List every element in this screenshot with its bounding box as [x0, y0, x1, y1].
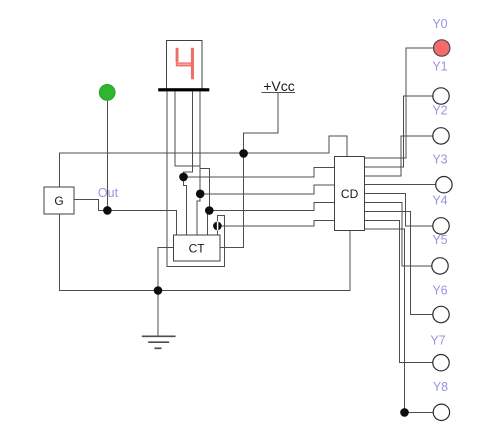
svg-text:CT: CT: [189, 242, 206, 256]
svg-text:+Vcc: +Vcc: [263, 78, 295, 94]
svg-text:Y5: Y5: [432, 233, 447, 247]
svg-text:Out: Out: [98, 186, 119, 200]
svg-text:Y8: Y8: [433, 380, 448, 394]
svg-text:Y2: Y2: [432, 104, 447, 118]
svg-text:Y4: Y4: [432, 194, 447, 208]
svg-text:Y6: Y6: [432, 284, 447, 298]
svg-text:CD: CD: [341, 187, 359, 201]
svg-text:Y0: Y0: [432, 17, 447, 31]
svg-text:Y1: Y1: [432, 60, 447, 74]
svg-text:G: G: [54, 194, 63, 208]
svg-text:Y3: Y3: [432, 153, 447, 167]
svg-text:Y7: Y7: [430, 334, 445, 348]
